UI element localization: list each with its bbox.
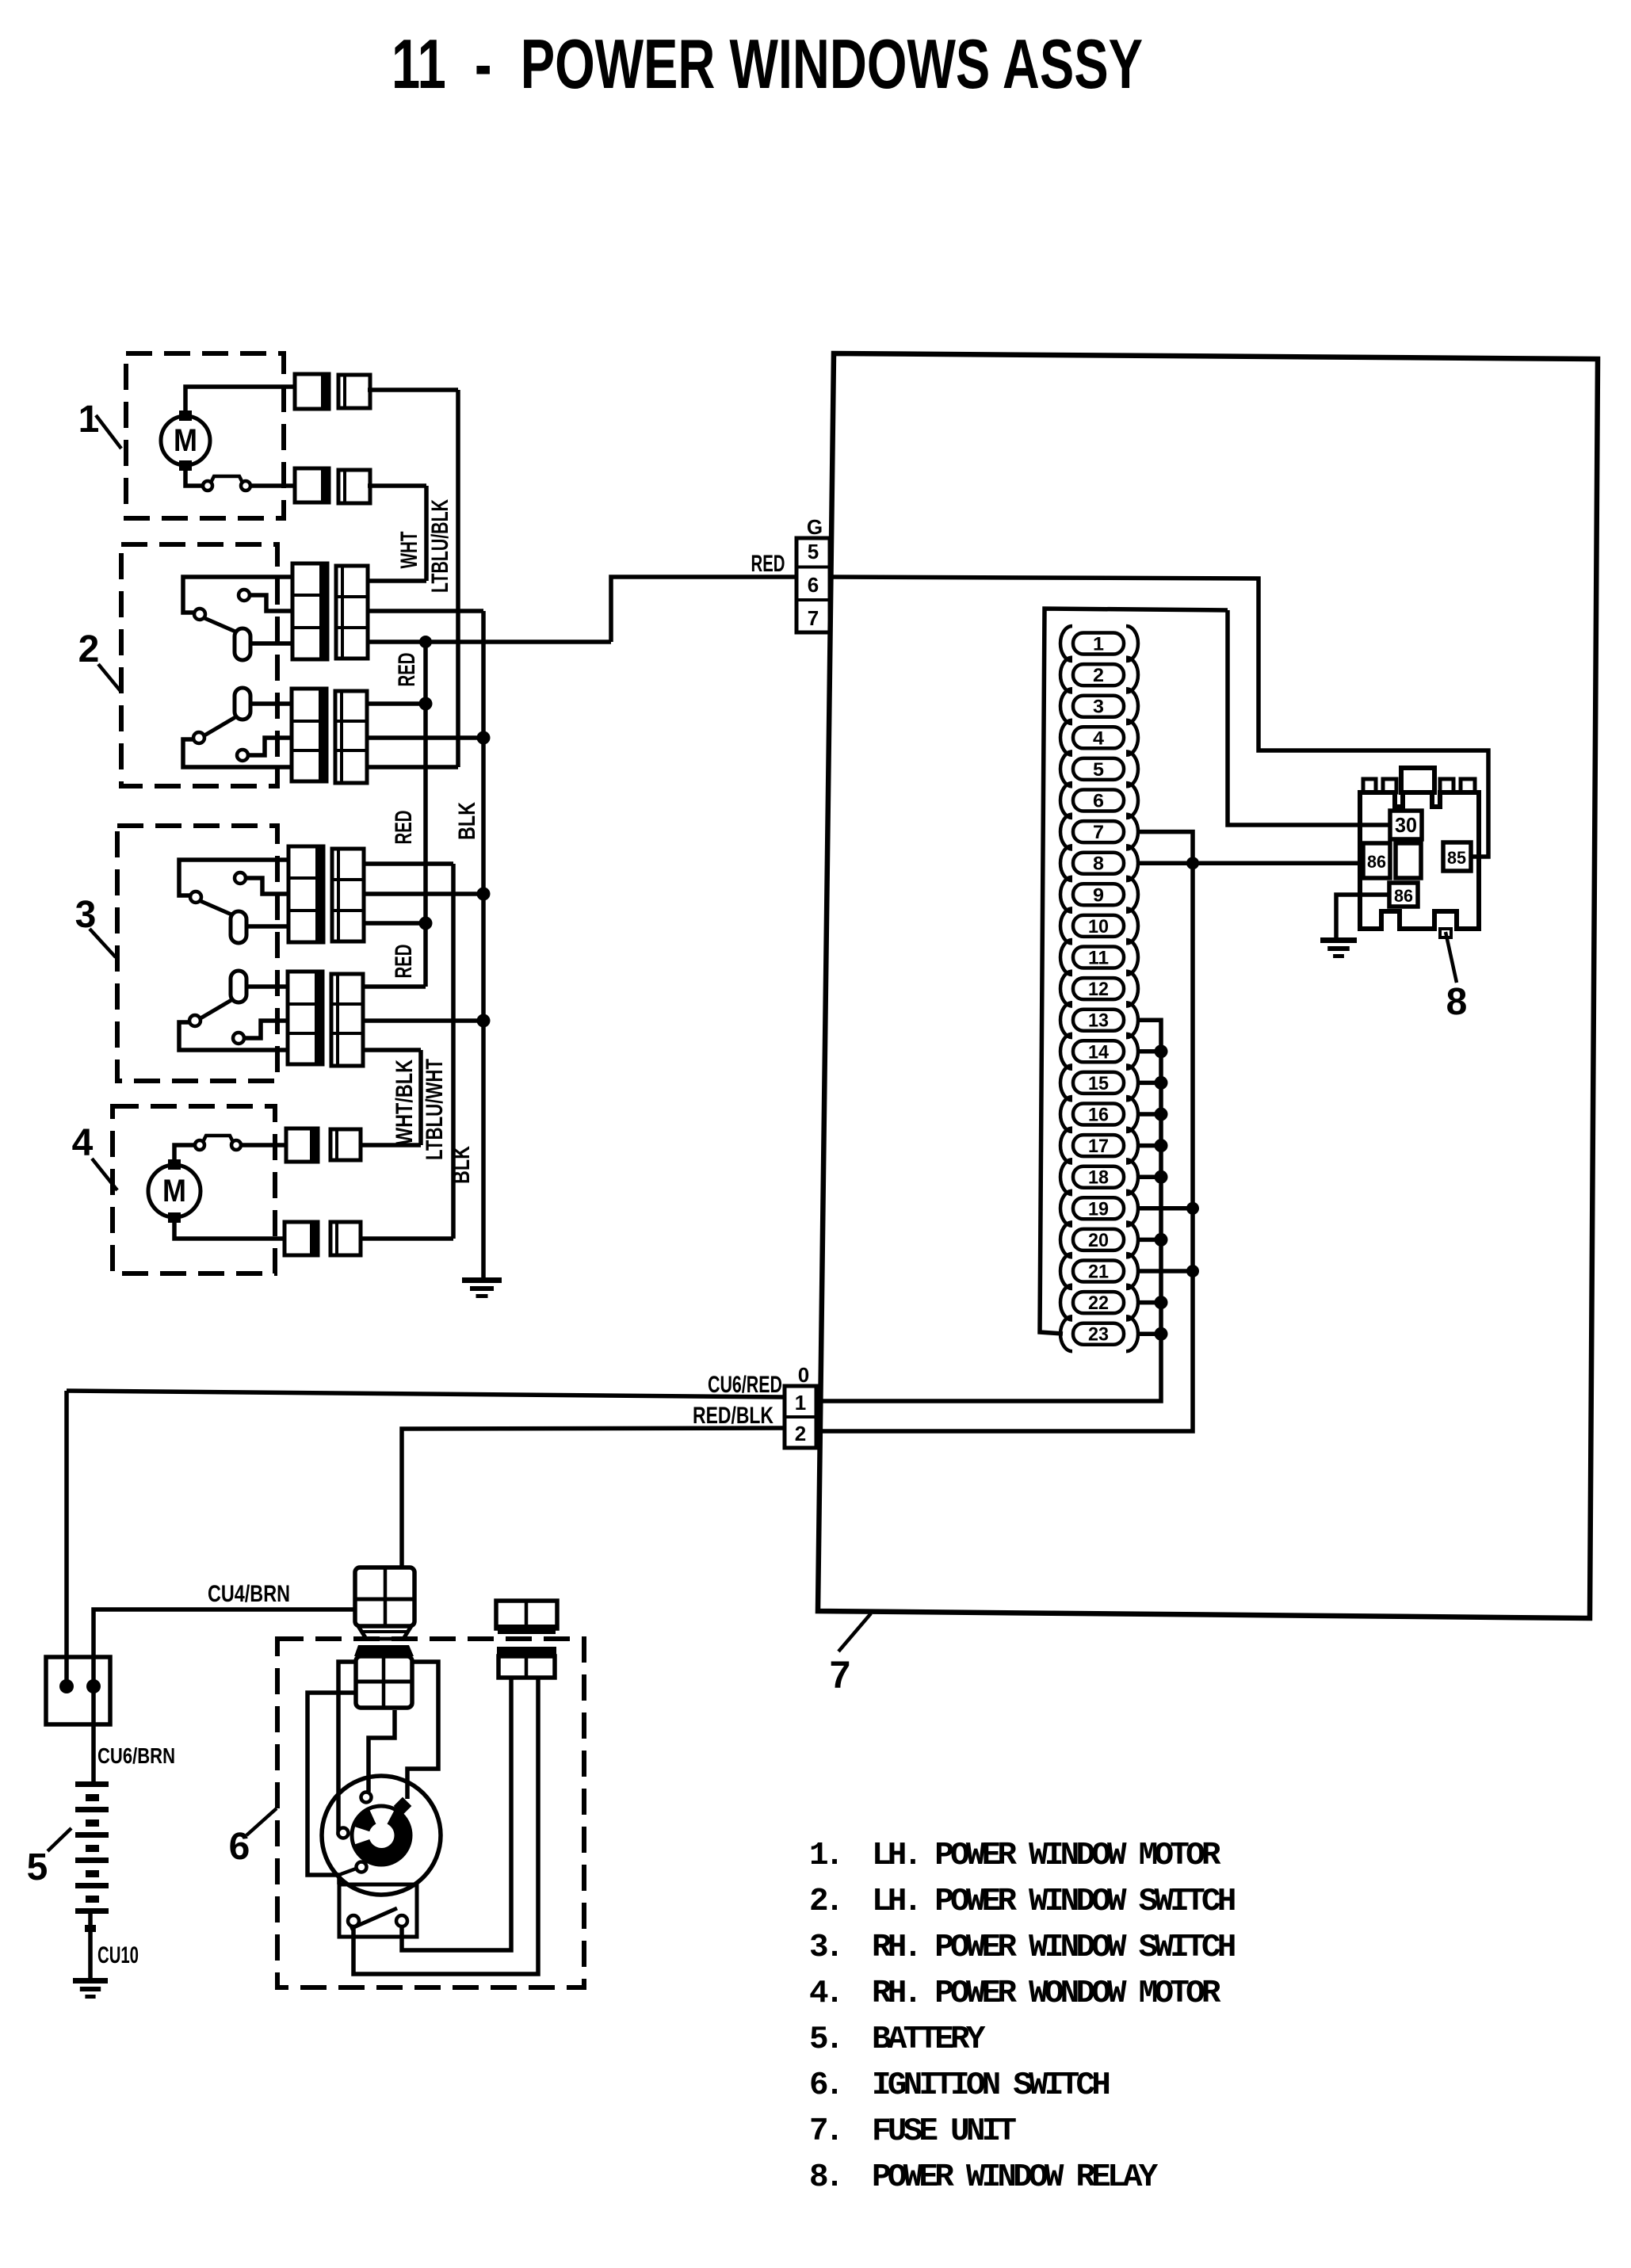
svg-text:19: 19	[1088, 1198, 1109, 1220]
svg-text:IGNITION SWITCH: IGNITION SWITCH	[872, 2068, 1109, 2104]
svg-text:WHT/BLK: WHT/BLK	[392, 1060, 418, 1145]
svg-text:LTBLU/WHT: LTBLU/WHT	[422, 1059, 448, 1160]
svg-text:85: 85	[1447, 848, 1466, 868]
svg-text:6: 6	[229, 1826, 250, 1868]
svg-text:21: 21	[1088, 1262, 1109, 1283]
svg-text:BLK: BLK	[454, 802, 480, 840]
svg-text:4: 4	[72, 1122, 94, 1164]
svg-text:11 - POWER WINDOWS ASSY: 11 - POWER WINDOWS ASSY	[392, 25, 1143, 103]
svg-text:1: 1	[795, 1391, 806, 1415]
svg-text:POWER WINDOW RELAY: POWER WINDOW RELAY	[872, 2159, 1159, 2196]
svg-text:8: 8	[1446, 981, 1468, 1023]
svg-text:RED: RED	[394, 653, 420, 687]
svg-text:5: 5	[27, 1846, 48, 1888]
svg-text:RED: RED	[391, 811, 417, 845]
svg-text:16: 16	[1088, 1105, 1109, 1126]
svg-text:6: 6	[1093, 791, 1104, 812]
svg-text:20: 20	[1088, 1230, 1109, 1251]
svg-text:17: 17	[1088, 1136, 1109, 1157]
svg-text:M: M	[174, 423, 197, 458]
svg-text:6: 6	[808, 573, 819, 597]
svg-text:6.: 6.	[809, 2068, 841, 2104]
svg-text:RH. POWER WONDOW MOTOR: RH. POWER WONDOW MOTOR	[872, 1976, 1221, 2012]
svg-text:RED: RED	[391, 945, 417, 979]
svg-text:5: 5	[1093, 759, 1104, 781]
svg-text:7.: 7.	[809, 2113, 841, 2150]
svg-text:23: 23	[1088, 1324, 1109, 1346]
svg-text:2: 2	[795, 1422, 806, 1445]
svg-text:0: 0	[798, 1363, 809, 1387]
svg-text:8: 8	[1093, 853, 1104, 875]
svg-text:1: 1	[78, 399, 100, 441]
svg-text:BATTERY: BATTERY	[872, 2022, 986, 2058]
svg-text:WHT: WHT	[396, 532, 422, 569]
svg-text:3: 3	[75, 894, 97, 936]
svg-text:LTBLU/BLK: LTBLU/BLK	[427, 499, 453, 593]
svg-text:CU6/BRN: CU6/BRN	[97, 1743, 175, 1768]
svg-text:RED/BLK: RED/BLK	[693, 1403, 773, 1429]
svg-text:22: 22	[1088, 1292, 1109, 1314]
svg-text:1: 1	[1093, 634, 1104, 655]
svg-text:2: 2	[78, 628, 100, 670]
svg-text:M: M	[162, 1174, 186, 1208]
svg-text:RED: RED	[751, 551, 785, 577]
svg-text:11: 11	[1088, 948, 1109, 969]
svg-text:G: G	[807, 515, 823, 539]
svg-text:4.: 4.	[809, 1976, 841, 2012]
svg-text:9: 9	[1093, 884, 1104, 906]
svg-text:15: 15	[1088, 1073, 1109, 1094]
svg-text:7: 7	[808, 606, 819, 630]
svg-text:30: 30	[1395, 813, 1417, 837]
svg-text:10: 10	[1088, 916, 1109, 937]
svg-text:18: 18	[1088, 1167, 1109, 1189]
svg-text:CU6/RED: CU6/RED	[708, 1372, 782, 1398]
svg-text:1.: 1.	[809, 1838, 841, 1874]
svg-text:12: 12	[1088, 979, 1109, 1000]
svg-text:3.: 3.	[809, 1930, 841, 1966]
svg-text:8.: 8.	[809, 2159, 841, 2196]
svg-text:4: 4	[1093, 727, 1105, 749]
svg-text:7: 7	[830, 1655, 851, 1697]
svg-text:7: 7	[1093, 822, 1104, 843]
svg-text:86: 86	[1367, 852, 1386, 872]
svg-text:CU4/BRN: CU4/BRN	[208, 1581, 290, 1607]
svg-text:3: 3	[1093, 697, 1104, 718]
svg-text:2.: 2.	[809, 1884, 841, 1920]
svg-text:14: 14	[1088, 1041, 1110, 1063]
svg-text:FUSE UNIT: FUSE UNIT	[872, 2113, 1016, 2150]
svg-text:LH. POWER WINDOW SWITCH: LH. POWER WINDOW SWITCH	[872, 1884, 1235, 1920]
svg-text:2: 2	[1093, 665, 1104, 686]
svg-text:86: 86	[1394, 886, 1413, 906]
svg-text:LH. POWER WINDOW MOTOR: LH. POWER WINDOW MOTOR	[872, 1838, 1221, 1874]
svg-text:5: 5	[808, 540, 819, 563]
svg-text:13: 13	[1088, 1010, 1109, 1032]
svg-text:RH. POWER WINDOW SWITCH: RH. POWER WINDOW SWITCH	[872, 1930, 1235, 1966]
svg-text:CU10: CU10	[97, 1942, 139, 1968]
svg-text:5.: 5.	[809, 2022, 841, 2058]
